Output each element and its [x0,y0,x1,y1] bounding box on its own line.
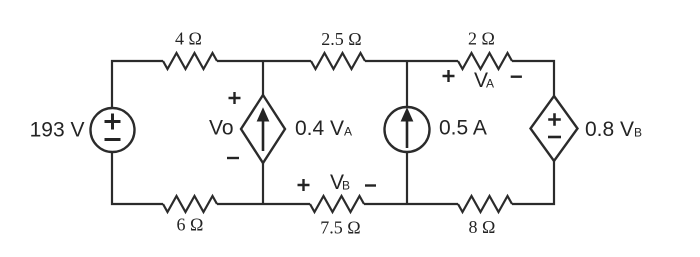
0.8VB diamond minus sign [548,136,561,139]
node VA plus sign (left of 2Ω below wire) [443,70,455,82]
node VB minus sign [365,184,376,186]
wire bottom node segment (between 6Ω and 7.5Ω) [217,203,310,205]
resistor R6 8Ω zigzag [458,196,512,212]
wire bottom-left corner segment [112,152,163,204]
svg-text:6 Ω: 6 Ω [177,215,204,235]
svg-text:193 V: 193 V [30,119,85,142]
Vo minus sign (below-left of diamond) [227,157,239,159]
resistor R5 7.5Ω zigzag [310,196,364,212]
wire top-right corner segment [512,61,554,96]
wire 0.5A branch top [406,61,408,107]
svg-text:4 Ω: 4 Ω [175,29,202,49]
svg-text:8 Ω: 8 Ω [469,217,496,237]
resistor R4 6Ω zigzag [163,196,217,212]
svg-text:0.5 A: 0.5 A [439,117,487,140]
wire top node B segment (between 2.5Ω and 2Ω) [365,60,458,62]
wire top-left corner segment [112,61,163,108]
wire top node A segment (between 4Ω and 2.5Ω) [217,60,311,62]
svg-text:Vo: Vo [209,117,234,140]
Vo plus sign (above-left of diamond) [229,92,241,104]
current source I1 0.5A circle [385,107,430,152]
dependent source 0.4VA diamond [241,95,285,163]
wire 0.5A branch bottom [406,152,408,204]
svg-text:2.5 Ω: 2.5 Ω [321,29,361,49]
svg-text:0.4 VA: 0.4 VA [295,117,352,140]
dependent source 0.8VB diamond [531,96,578,161]
wire bottom node segment (between 7.5Ω and 8Ω) [364,203,458,205]
0.8VB diamond plus sign [548,113,561,125]
resistor R3 2Ω zigzag [458,53,512,69]
svg-text:0.8 VB: 0.8 VB [585,118,642,141]
arrow inside current source 0.5A [401,109,412,149]
resistor R2 2.5Ω zigzag [311,53,365,69]
V1 plus sign [105,114,121,130]
svg-text:VA: VA [474,69,494,92]
resistor R1 4Ω zigzag [163,53,217,69]
wire Vo branch top [262,61,264,95]
wire bottom-right corner segment [512,161,554,204]
node VA minus sign [511,75,522,77]
svg-text:VB: VB [330,171,350,194]
V1 minus sign [105,138,121,141]
arrow inside dependent source 0.4VA [257,109,268,152]
node VB plus sign (above 7.5Ω) [298,179,310,191]
voltage source V1 193V circle [91,108,135,152]
wire Vo branch bottom [262,163,264,204]
svg-text:7.5 Ω: 7.5 Ω [320,218,360,238]
svg-text:2 Ω: 2 Ω [468,29,495,49]
